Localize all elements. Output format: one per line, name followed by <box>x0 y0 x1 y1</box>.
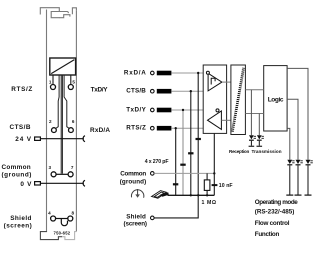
svg-text:RTS/Z: RTS/Z <box>126 125 146 132</box>
module top profile jog <box>59 12 68 14</box>
earth rail <box>168 194 215 196</box>
svg-text:7: 7 <box>71 165 74 170</box>
stub to contact 5 <box>70 75 72 84</box>
bus wire d to contact 6 <box>64 75 69 129</box>
terminal bar CTS/B <box>157 89 172 94</box>
junction dot CTS/B drop <box>190 90 192 92</box>
svg-text:(ground): (ground) <box>2 172 32 179</box>
svg-text:TxD/Y: TxD/Y <box>91 86 109 93</box>
wire row RTS/Z <box>171 127 221 129</box>
terminal circle RTS/Z <box>151 126 155 130</box>
svg-text:Transmission: Transmission <box>252 149 282 154</box>
module right edge <box>75 11 77 232</box>
contact 3 <box>51 172 56 177</box>
module bottom foot dark <box>40 231 62 240</box>
MODULE-LEFT <box>2 8 111 240</box>
reception LED tap wire <box>250 90 252 135</box>
module left edge <box>46 10 48 232</box>
SCHEMATIC-RIGHT <box>120 65 313 238</box>
junction dot RxD/A drop <box>197 72 199 74</box>
shield wire to earth rail <box>154 195 198 218</box>
svg-text:4 x 270 pF: 4 x 270 pF <box>145 159 169 165</box>
resistor R1 1 MOhm wire <box>206 173 208 195</box>
electronics box E1 <box>50 58 76 75</box>
24V rail wire <box>40 138 83 140</box>
receiver input bubble <box>206 71 209 74</box>
receiver amp A1 <box>208 73 222 91</box>
drop wire from TxD/Y row <box>182 110 184 195</box>
wire isolation to logic (transmission) <box>245 113 263 115</box>
isolation barrier box <box>231 65 246 135</box>
svg-text:(screen): (screen) <box>124 220 148 227</box>
shield clamp hook under 4-8 <box>61 219 67 226</box>
bus wire b to link 3-7 <box>60 75 62 174</box>
logic wire 3 (operating mode) <box>287 68 308 159</box>
wire row RxD/A <box>171 72 206 74</box>
svg-text:CTS/B: CTS/B <box>10 124 31 131</box>
0V field terminal square <box>35 182 41 185</box>
wire receiver out to isolation <box>222 81 231 83</box>
transmission LED tap wire <box>258 114 260 136</box>
drop wire from CTS/B row <box>190 91 192 195</box>
drop wire from RTS/Z row <box>175 128 177 195</box>
bus wire c to link 3-7 <box>61 75 63 174</box>
capacitor C2 270pF <box>188 152 193 154</box>
wire isolation to driver in <box>221 119 231 121</box>
shield circle (schematic) <box>151 216 155 220</box>
wire isolation to logic (reception) <box>245 89 263 91</box>
svg-text:RxD/A: RxD/A <box>124 69 146 76</box>
junction dot RTS/Z drop <box>175 127 177 129</box>
svg-text:10 nF: 10 nF <box>219 183 233 189</box>
logic box U2 <box>264 66 287 131</box>
contact 8 <box>68 216 73 221</box>
terminal circle RxD/A <box>151 71 155 75</box>
0V rail wire <box>40 182 83 184</box>
svg-text:1 MΩ: 1 MΩ <box>202 200 217 206</box>
terminal bar TxD/Y <box>157 108 172 113</box>
common ground rail <box>154 172 214 174</box>
logic wire 2 (flow control) <box>287 99 298 159</box>
wire row TxD/Y <box>171 109 216 111</box>
capacitor C1 270pF <box>196 138 201 140</box>
contact 4 <box>51 216 56 221</box>
svg-text:(RS-232/-485): (RS-232/-485) <box>255 208 294 215</box>
24V field terminal square <box>35 137 41 140</box>
common ground circle <box>151 172 155 176</box>
svg-text:TxD/Y: TxD/Y <box>126 106 146 113</box>
svg-text:CTS/B: CTS/B <box>126 88 146 95</box>
module bottom foot light <box>62 232 76 240</box>
contact 7 <box>68 172 73 177</box>
0V rail jumper hook <box>83 180 85 186</box>
svg-text:Common: Common <box>2 164 31 171</box>
status LED D3 <box>286 160 294 196</box>
module top profile tab <box>72 8 76 15</box>
contact 6 <box>69 128 74 133</box>
contact 1 <box>51 85 56 90</box>
svg-text:Function: Function <box>255 231 280 238</box>
driver output bubble <box>216 109 219 112</box>
junction dot earth/shield <box>197 194 199 196</box>
capacitor C5 10nF <box>212 184 218 186</box>
transmission LED D2 <box>257 135 264 147</box>
wire box1 bottom to earth (10nF branch) <box>213 133 215 195</box>
svg-text:Shield: Shield <box>10 215 31 222</box>
svg-text:(screen): (screen) <box>4 222 32 229</box>
functional earth symbol <box>131 189 143 198</box>
terminal bar RxD/A <box>157 71 172 76</box>
stub to contact 1 <box>52 75 54 84</box>
svg-text:8: 8 <box>72 210 75 215</box>
logic wire 1 (function) <box>287 128 290 159</box>
drop wire from RxD/A row <box>197 73 199 195</box>
svg-text:Reception: Reception <box>229 149 249 154</box>
transceiver box U1 <box>203 65 226 133</box>
contact 2 <box>52 128 57 133</box>
receiver hysteresis glyph <box>211 78 215 84</box>
24V rail jumper hook <box>83 136 85 142</box>
svg-text:4: 4 <box>48 210 51 215</box>
svg-text:Logic: Logic <box>268 97 284 104</box>
svg-text:Flow control: Flow control <box>255 220 290 227</box>
DIN rail contact icon <box>152 191 169 199</box>
isolation hatch band <box>232 68 243 132</box>
resistor R1 1 MOhm body <box>204 180 210 191</box>
link wire contacts 3-7 <box>56 173 68 175</box>
svg-text:24 V: 24 V <box>15 136 31 143</box>
svg-text:RTS/Z: RTS/Z <box>11 86 32 93</box>
junction dot earth/resistor <box>206 194 208 196</box>
svg-text:1: 1 <box>49 80 52 85</box>
driver amp A2 <box>208 111 222 129</box>
junction dot TxD/Y drop <box>182 109 184 111</box>
svg-text:Shield: Shield <box>126 213 146 220</box>
svg-text:750-652: 750-652 <box>54 230 71 235</box>
terminal circle TxD/Y <box>151 108 155 112</box>
electronics box diagonal <box>51 60 74 74</box>
terminal circle CTS/B <box>151 89 155 93</box>
svg-text:5: 5 <box>72 80 75 85</box>
contact 5 <box>68 85 73 90</box>
module top profile step <box>59 15 70 18</box>
terminal bar RTS/Z <box>157 126 172 131</box>
status LED D5 <box>305 160 313 196</box>
junction dot common/10nF <box>213 172 215 174</box>
status LED D4 <box>295 160 303 196</box>
link wire contacts 4-8 <box>56 218 68 220</box>
capacitor C4 270pF <box>173 183 178 185</box>
junction dot earth/CTSdrop <box>190 194 192 196</box>
svg-text:3: 3 <box>49 165 52 170</box>
svg-text:Operating mode: Operating mode <box>255 199 298 206</box>
svg-text:(ground): (ground) <box>120 179 147 186</box>
bus wire a to contact 2 <box>56 75 60 129</box>
module top profile hook <box>40 8 59 18</box>
svg-text:6: 6 <box>72 119 75 124</box>
wire row CTS/B <box>171 90 208 92</box>
svg-text:2: 2 <box>49 119 52 124</box>
svg-text:Common: Common <box>120 171 146 178</box>
capacitor C3 270pF <box>180 164 185 166</box>
reception LED D1 <box>249 135 256 147</box>
svg-text:0 V: 0 V <box>20 181 32 188</box>
svg-text:RxD/A: RxD/A <box>90 127 110 134</box>
